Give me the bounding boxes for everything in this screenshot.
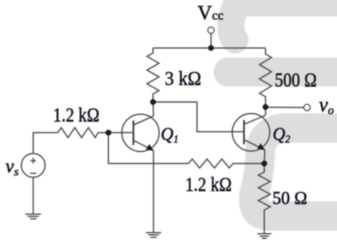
source vs plus sign	[30, 158, 36, 164]
junction dot Vcc rail	[208, 45, 214, 51]
wire vo tap	[266, 106, 304, 108]
terminal vo open circle	[304, 104, 310, 110]
arrow Q1 emitter	[146, 144, 153, 150]
transistor Q2 circle	[232, 114, 270, 152]
svg-text:1.2 kΩ: 1.2 kΩ	[185, 174, 232, 196]
transistor Q1 base bar	[132, 121, 134, 146]
resistor R3 1.2k bottom zigzag	[189, 159, 265, 168]
wire node to Q2 base L-path	[153, 102, 244, 132]
transistor Q2 emitter diagonal	[244, 140, 265, 150]
wire Q2 collector up	[265, 107, 267, 115]
wire Q1 collector	[152, 102, 155, 116]
ground for vs	[25, 214, 41, 219]
source vs minus sign	[30, 172, 36, 174]
wire top rail	[153, 47, 266, 49]
watermark lower band with descender and bottom band	[254, 128, 337, 216]
transistor Q2 collector diagonal	[244, 115, 266, 124]
ground for Q2 emitter	[257, 234, 271, 239]
resistor R1 3k zigzag	[147, 48, 159, 102]
junction dot R1 bottom	[150, 99, 156, 105]
svg-text:Q1: Q1	[161, 124, 179, 146]
wire Q1 emitter down	[153, 151, 155, 233]
wire Vcc stub	[210, 33, 212, 48]
svg-text:500 Ω: 500 Ω	[275, 70, 317, 92]
svg-text:Vcc: Vcc	[198, 2, 224, 24]
resistor R5 50 zigzag	[258, 164, 270, 234]
watermark middle band	[228, 58, 337, 87]
resistor R2 1.2k left zigzag	[58, 128, 109, 138]
terminal Vcc open circle	[208, 27, 214, 33]
junction dot Q2 emitter	[261, 161, 267, 167]
svg-text:50 Ω: 50 Ω	[272, 188, 307, 208]
arrow Q2 emitter	[257, 143, 264, 149]
transistor Q1 emitter diagonal	[133, 140, 153, 150]
wire vs to resistor	[33, 133, 58, 154]
wire Q1 base lead	[108, 132, 133, 134]
wire Q2 emitter down	[263, 150, 266, 164]
resistor R4 500 zigzag	[260, 48, 272, 107]
svg-text:1.2 kΩ: 1.2 kΩ	[53, 105, 100, 127]
svg-text:3 kΩ: 3 kΩ	[165, 68, 202, 90]
watermark top band	[242, 0, 337, 17]
svg-text:vs: vs	[6, 157, 19, 179]
source vs circle	[21, 154, 45, 178]
junction dot Q1 base	[106, 130, 112, 136]
watermark swoosh top	[231, 0, 252, 40]
wire base node down and right	[108, 133, 188, 164]
svg-text:vo: vo	[319, 95, 334, 118]
transistor Q2 base bar	[243, 120, 245, 144]
transistor Q1 collector diagonal	[133, 116, 153, 125]
wire vs bottom	[32, 177, 34, 214]
ground for Q1 emitter	[146, 233, 161, 238]
transistor Q1 circle	[122, 114, 159, 151]
junction dot Q2 collector	[263, 104, 269, 110]
